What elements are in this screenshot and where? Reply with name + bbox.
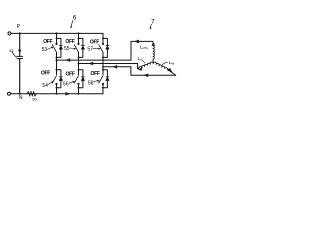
node dots leg2 [78,32,80,34]
svg-text:P: P [17,24,21,30]
wire DC-link vertical [19,33,21,93]
arrow on Lw outer end [168,68,173,72]
svg-text:N: N [19,95,23,101]
svg-text:OFF: OFF [41,71,50,77]
svg-text:53: 53 [42,47,48,53]
inductor Lw coil [153,62,170,71]
wire Lw end corner [170,71,175,75]
diode D55 loop [79,38,83,57]
diode D54 loop [57,70,61,88]
wire phase V [79,63,138,65]
svg-text:7: 7 [151,19,155,26]
arrow left on motor top line [134,40,139,44]
wire V corner down [138,64,139,69]
node P junction dot [19,32,21,34]
svg-text:OFF: OFF [66,72,75,78]
switch 57 lever [99,45,103,53]
leader Lv [142,60,144,63]
svg-text:56: 56 [63,82,69,88]
switch 56 lever [74,76,78,84]
wire motor bottom line [131,74,176,76]
arrow left on U [65,58,70,62]
leader arrow 58 [94,81,98,82]
node N junction dot [19,93,21,95]
leader arrow label 7 [150,24,151,27]
switch 53 lever [52,45,56,53]
terminal P (top-left circle) [8,32,11,35]
diode D53 loop [57,38,61,57]
switch 55 lever [74,45,78,53]
arrow left on motor bottom line [143,74,148,78]
arrow left on V [88,62,93,66]
svg-text:6: 6 [73,14,77,21]
arrow up on Lu [152,43,155,46]
leader arrow 57 [93,47,99,49]
switch 54 lever [52,76,56,84]
wire bottom rail N to leg3 [11,93,104,95]
inductor Lv coil [139,62,154,69]
wire phase W [103,66,131,68]
switch 58 lever [99,76,103,84]
arrow on Lv outer end [138,67,143,71]
diode D56 loop [79,70,83,88]
node dots leg3 [102,37,104,39]
leg 1 vertical wire segments [56,33,58,93]
svg-text:55: 55 [64,46,70,52]
svg-text:Lu: Lu [140,45,145,51]
terminal N (bottom-left circle) [8,92,11,95]
svg-text:59: 59 [32,96,37,101]
svg-text:54: 54 [42,83,48,89]
arrow left on W [112,65,117,69]
diode D58 loop [103,70,107,88]
leader arrow 54 [48,82,52,84]
svg-text:OFF: OFF [90,39,99,45]
svg-text:OFF: OFF [43,39,52,45]
svg-text:Lw: Lw [169,60,175,66]
svg-text:OFF: OFF [91,71,100,77]
wire U riser up [130,41,132,60]
leader arrow label 6 [71,21,73,27]
leader Lw [162,62,168,65]
node motor star center [153,62,155,64]
leader Lu [145,46,147,49]
node dots leg1 [56,32,58,34]
svg-text:58: 58 [88,80,94,86]
inductor Lu coil [153,41,154,63]
leg 3 vertical wire segments [102,33,104,93]
leader arrow 56 [69,82,73,84]
svg-text:52: 52 [9,49,13,53]
capacitor leader 52 [12,52,16,58]
wire top rail P to leg3 [11,32,103,34]
wire motor top line [131,40,153,42]
leader arrow 53 [47,47,52,49]
svg-text:57: 57 [87,46,93,52]
svg-text:Lv: Lv [138,56,143,62]
wire phase U [57,59,132,61]
diode D57 loop [103,38,107,57]
leader arrow 55 [70,47,75,50]
capacitor C (smoothing, plates) [17,56,23,58]
current arrow down on DC link [18,50,21,54]
wire W riser down [130,67,132,76]
leg 2 vertical wire segments [78,33,80,93]
wire bottom-rail right arrow [65,92,70,96]
svg-text:OFF: OFF [65,39,74,45]
resistor R (shunt, zigzag on bottom rail) [27,91,37,96]
